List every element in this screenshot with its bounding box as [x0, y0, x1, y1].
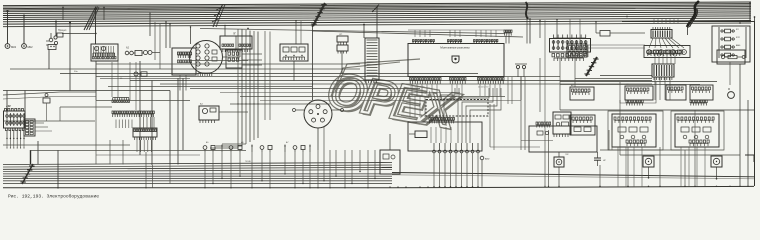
wire VR2 drops to rail — [680, 147, 682, 186]
wire corner x160 — [159, 24, 161, 69]
wire horiz y90 left — [3, 90, 170, 92]
wire horiz y110 right — [560, 109, 754, 111]
RB1 lower rects — [552, 54, 587, 57]
watermark frame stroke — [335, 59, 420, 92]
small box left of K5 — [600, 31, 610, 37]
RC1 inner rects — [654, 50, 659, 54]
wire vert x152 — [151, 81, 153, 166]
A3 inner lower contacts — [178, 60, 192, 63]
wire left horiz y150 — [30, 150, 246, 152]
frame inner vert x750 — [749, 3, 751, 22]
wire vert x7 lower — [6, 91, 8, 114]
regulator block VR1 frame — [612, 114, 656, 147]
capacitor C1 — [594, 157, 601, 159]
wire left horiz y86 — [108, 86, 312, 88]
junction box A1 with contacts — [91, 44, 118, 61]
wire drop to lamp MK2-2 — [23, 16, 25, 44]
fuse block F1 top terminal row — [5, 109, 24, 111]
sender B2 box — [554, 157, 564, 167]
wire left vert x136 — [135, 62, 137, 110]
relay bank RB1 right extension — [567, 44, 587, 57]
A1 inner contact comb — [93, 53, 115, 57]
wire right horiz y48 — [588, 47, 645, 49]
wire left horiz y145 — [3, 144, 130, 146]
VR1 pins down — [627, 144, 645, 147]
wire K5 top feeds — [653, 18, 655, 24]
D2 right lead — [332, 109, 340, 111]
wire right loop RG2 — [620, 82, 656, 103]
H1 connector row — [429, 118, 455, 121]
wire vert x755 drop from bus — [754, 17, 756, 22]
fuse F1 lower row — [6, 128, 25, 131]
wire vert x140 — [139, 61, 141, 155]
cable bundle diagonal x585 — [586, 57, 597, 76]
wire x545 drops — [544, 130, 546, 186]
wire drops mid x330-370 — [317, 150, 375, 189]
wire left vert x118 — [117, 55, 119, 97]
connector row mid x536 — [536, 122, 551, 125]
wire drop x225 — [224, 26, 226, 37]
relay box K4 — [199, 106, 219, 120]
wire horiz mid y150 right — [600, 149, 680, 151]
wire vert x540 — [539, 58, 541, 112]
relay group RG3 — [666, 85, 686, 100]
wire horiz y69 — [10, 68, 360, 70]
relay K0 small — [57, 33, 63, 37]
wire vert x660b — [659, 147, 661, 186]
connector cluster X6 dense — [652, 64, 674, 77]
wire horiz right y84 — [560, 84, 700, 86]
wire distributor frame link — [222, 56, 240, 58]
connector X2 pins down — [113, 114, 154, 117]
junction box U1 (Montazhnye razyomy) frame — [408, 44, 504, 77]
VR2 component row — [681, 127, 689, 132]
wire vert x96 mid — [95, 61, 97, 100]
svg-text:МК2: МК2 — [28, 45, 34, 49]
wire drop x123 low — [122, 140, 124, 165]
wire vert x748 — [747, 100, 749, 186]
wire dots on ground rail right — [599, 186, 600, 187]
small switch left — [43, 98, 50, 103]
wire vert x545b — [544, 20, 546, 130]
wire A1 dense internals — [93, 46, 95, 56]
K4 pins — [200, 120, 215, 123]
staircase wires from box pins — [458, 88, 489, 143]
contact lamp A1-1 — [95, 47, 99, 51]
wire drop x146 — [145, 152, 147, 188]
distributor D2 body — [304, 100, 332, 128]
wire harness crossing dots — [237, 103, 238, 104]
wire right horiz y140 — [521, 140, 553, 142]
motor unit ME1 — [643, 156, 654, 167]
wire K3 drop — [293, 61, 295, 81]
U1 top pin group 2 — [448, 41, 461, 44]
B1 terminals — [222, 44, 234, 46]
lamp MK2-1 — [5, 44, 10, 49]
wire X2 to X3 drops — [115, 120, 117, 129]
E1 inner — [383, 154, 389, 159]
wire left mid horiz y100 — [96, 100, 190, 102]
relay bank RB1 frame — [550, 39, 591, 53]
wire headlamp drops left — [409, 96, 411, 117]
relay group RG1 — [570, 87, 594, 100]
fuse F1 elements — [6, 113, 8, 126]
wire drop x170b — [169, 165, 171, 184]
H1 small box left — [415, 131, 427, 138]
wire vert x70 — [69, 23, 71, 91]
relay group RG2 — [625, 86, 653, 100]
wire mid y100b — [260, 100, 521, 102]
svg-text:Рис. 192,193. Электрооборудова: Рис. 192,193. Электрооборудование — [8, 193, 99, 199]
svg-text:ПОЧВ: ПОЧВ — [245, 161, 251, 163]
connector X3 row — [134, 129, 156, 132]
K3 contact dots — [285, 55, 286, 56]
big frame right section — [622, 22, 755, 187]
wire drop x312 — [312, 26, 314, 100]
wire box feed horiz y30 — [408, 29, 504, 31]
svg-text:АМ2: АМ2 — [485, 158, 490, 161]
cable crossing bus x214 — [213, 5, 223, 28]
wire E1 feed — [389, 134, 391, 150]
wire vert x178 — [177, 78, 179, 165]
X4 pin ladder — [367, 40, 378, 76]
wire vert x540b — [539, 21, 541, 39]
wire horiz y76 — [96, 76, 560, 78]
S1 knot contacts — [50, 46, 51, 47]
relay box K3 frame — [280, 44, 308, 61]
wire VR1 drops to rail — [617, 147, 619, 186]
K2 contacts — [26, 121, 29, 123]
svg-text:СП: СП — [339, 34, 343, 36]
connector X1 row — [112, 100, 130, 102]
wire horiz right y81 — [560, 81, 717, 83]
wire sp drop — [341, 51, 343, 74]
RB1 top pins — [554, 35, 586, 39]
svg-text:БП: БП — [8, 106, 12, 108]
fuse F1 lower contacts — [6, 131, 8, 139]
wire left vert x130 — [129, 62, 131, 100]
VR2 lower contacts — [689, 140, 709, 143]
wire drop x688 — [687, 27, 689, 35]
wire long return to right edge — [392, 173, 754, 177]
wire drop x96b — [95, 100, 97, 165]
lamp AM2 — [480, 156, 484, 160]
bracket right edge — [745, 155, 754, 162]
B1 drop wires — [223, 49, 250, 52]
equipment box around lamp row — [408, 122, 482, 151]
wire stub above cable — [30, 150, 32, 164]
wire vert x183 — [182, 78, 184, 150]
wire vert x560 — [559, 58, 561, 110]
wire X6 to relay groups — [654, 85, 656, 100]
wire horiz right y78 — [575, 78, 652, 80]
switch S1 group — [49, 38, 53, 42]
VR1 component row — [618, 127, 626, 132]
relay column KL2 — [721, 38, 723, 40]
wire mid vert x512 — [511, 77, 513, 104]
RR1 inner parts — [555, 115, 561, 119]
lamp MK2-2 — [22, 44, 27, 49]
wire mid y88 — [190, 88, 420, 90]
wire drop x95 — [95, 9, 97, 44]
switch SP1 — [337, 36, 348, 42]
K5 fan wires — [649, 38, 684, 48]
watermark logo OREH outline letters — [324, 64, 464, 141]
wire drop x190 — [190, 27, 192, 44]
box around relay column — [712, 26, 750, 62]
wire vert x580 — [579, 19, 581, 44]
wire left mid horiz y107 — [60, 106, 112, 108]
K2 out wires — [35, 122, 44, 124]
wire mid y64 — [96, 63, 360, 65]
K4 coil circle — [202, 108, 207, 113]
wire vert x620 — [619, 100, 621, 155]
wire headlamp side verts — [489, 104, 491, 147]
VR1 contact row — [614, 117, 651, 120]
wire vert x600 — [599, 165, 601, 186]
contact lamp A1-2 — [102, 47, 106, 51]
wire bundle curve crossing bus at x90 — [84, 7, 96, 31]
distributor D1 body — [190, 41, 223, 74]
wire second long return — [392, 175, 754, 179]
H1 bottom contact row — [433, 143, 480, 153]
side connector wires — [242, 53, 262, 55]
connector X5 small — [504, 30, 512, 32]
U1 bottom pin group 1 — [410, 78, 442, 81]
connector X4 tall body — [365, 38, 379, 80]
wire K3 feeds — [295, 21, 297, 44]
wire vert x695b — [694, 110, 696, 150]
RB1 fuse elements — [552, 40, 587, 50]
wire right horiz y37 — [610, 32, 645, 34]
wire vert x628 — [627, 147, 629, 186]
relay column KL1 — [721, 30, 723, 32]
wire mid y92 — [220, 92, 460, 94]
wire horiz y120 left — [3, 120, 95, 122]
wire corner x155 — [154, 22, 156, 60]
wire RB1 drops — [554, 58, 584, 61]
wire drop x63 — [62, 7, 64, 20]
wire vert x525 — [524, 77, 526, 150]
wire harness extra drops — [264, 31, 266, 120]
wire corner x150 — [149, 13, 151, 36]
small gauge pair mid-left — [134, 72, 138, 76]
wire bus bottom return wires — [3, 163, 392, 188]
wire drop x38 — [37, 141, 39, 165]
wire drop x377 top — [376, 7, 378, 38]
D2 center dot — [317, 113, 319, 115]
wire bus top horizontal supply wires — [3, 2, 751, 27]
gauge chain box — [135, 51, 142, 56]
A1 lower terminal row — [93, 57, 117, 59]
cable bundle diagonal bottom-left — [22, 164, 33, 184]
wire vert x527 — [526, 20, 528, 44]
gauge chain G1 — [125, 51, 129, 55]
equipment box E1 tall — [380, 150, 400, 174]
distributor side connector — [226, 50, 242, 68]
B1 inner divider — [235, 36, 237, 49]
wire vert x740 — [739, 64, 741, 186]
wire box top feeds — [414, 30, 416, 37]
connector X2 row — [112, 111, 154, 114]
relay block K2 beside fuse block — [24, 119, 35, 136]
wire B2 drop — [558, 167, 560, 186]
wire K4 link — [219, 111, 248, 113]
svg-text:М: М — [728, 88, 730, 91]
connector X1 pins — [113, 98, 129, 100]
wire vert x655-670 drops — [655, 77, 670, 85]
wire vert x25 lower — [24, 91, 26, 114]
connector X3 pins — [135, 137, 156, 140]
relay column AM6 — [721, 46, 723, 48]
wire vert x521b — [520, 77, 522, 150]
wire horiz y155 right — [620, 154, 740, 156]
wire drop node at x56 — [55, 22, 57, 37]
X6 pigtails — [654, 77, 672, 80]
X6 upper contacts — [647, 51, 681, 54]
wire left horiz y78 — [100, 77, 190, 79]
wire under box drops — [411, 84, 413, 96]
headlamp H1 dashed frame — [426, 100, 488, 117]
U1 bottom pin group 3 — [478, 78, 505, 81]
A3 feed wires — [165, 22, 167, 48]
gauge chain G2 — [144, 51, 148, 55]
U1 top pin group 1 — [413, 41, 433, 44]
RC1 coils — [647, 50, 652, 55]
wire vert x685 — [684, 150, 686, 186]
wire horiz right y75 — [600, 75, 652, 77]
distributor D1 inner rects — [212, 50, 217, 54]
resistor unit R1 box — [717, 50, 745, 64]
connector X3 block — [133, 128, 157, 137]
small parts below x536 — [537, 131, 543, 135]
wire bottom ground rail right half — [392, 186, 754, 187]
wire harness bends to left — [210, 144, 246, 148]
wire horiz y84 — [160, 83, 652, 85]
wire horiz y80 — [130, 80, 652, 82]
wire fuse outputs short stubs — [6, 139, 8, 148]
distributor D1 contact grid — [196, 44, 200, 48]
wire relay column bus — [718, 27, 720, 58]
wire right loop VR2 — [671, 111, 724, 150]
wire drop x530 — [529, 19, 531, 44]
wire mid vert x508 — [507, 77, 509, 104]
wire horiz y73 — [60, 73, 478, 75]
svg-text:Монтажные разъемы: Монтажные разъемы — [440, 46, 470, 50]
wire vert x557 — [556, 20, 558, 38]
svg-text:МК2: МК2 — [11, 45, 17, 49]
cable crossing ticks — [212, 7, 223, 22]
ignition coil box B1 — [220, 36, 252, 49]
contact pair CP1 — [516, 65, 519, 68]
bottom components row (switches and lamps) — [203, 145, 311, 189]
wire vert x730 — [729, 62, 731, 85]
fuse block F1 frame — [4, 111, 26, 128]
VR1 contact pins — [615, 121, 650, 123]
wire left vert x112b — [111, 62, 113, 97]
A3 output wires — [179, 75, 181, 91]
U1 bottom pin group 2 — [450, 78, 467, 81]
wire left vert x60 — [59, 107, 61, 121]
wire vert x49 — [48, 49, 50, 69]
cable bundle diagonal top-middle — [313, 3, 325, 26]
wire right horiz y45 — [588, 44, 645, 46]
wire drop to lamp MK2-1 — [7, 11, 9, 44]
distribution box A3 — [172, 48, 196, 75]
VR2 contact row — [677, 117, 714, 120]
wire vert x170 — [169, 91, 171, 165]
wire drop x521 — [520, 77, 522, 101]
relay column KL3 — [721, 54, 723, 56]
dots bottom rail mid — [389, 186, 390, 187]
wire drop x110 low — [109, 140, 111, 165]
motor M1 circle — [728, 92, 735, 99]
wire right vert x588 — [587, 45, 589, 57]
wire drop x364 — [363, 25, 365, 39]
wire vert x575 — [574, 58, 576, 87]
wire right loop VR1 — [608, 111, 663, 150]
A3 inner connector — [178, 52, 192, 55]
VR2 contact pins — [678, 121, 713, 123]
wire drop x609 low — [608, 130, 610, 150]
svg-text:10 11 12 13: 10 11 12 13 — [478, 87, 489, 89]
wire horiz y104 mid — [230, 103, 330, 105]
U1 top pin group 3 — [474, 41, 497, 44]
regulator block VR2 frame — [675, 114, 719, 147]
A3 inner pins — [178, 55, 191, 58]
regulator block VR0 small left — [570, 115, 595, 135]
R1 inner resistor — [728, 56, 737, 59]
wire vert x695 — [694, 150, 696, 186]
relay row RC1 frame — [644, 46, 690, 58]
regulator box RR1 (x554) — [553, 112, 571, 134]
H1 pins — [430, 120, 454, 123]
squiggle cable x527 — [526, 2, 529, 19]
wire X3 outputs down — [136, 140, 138, 152]
wire harness six vertical drops — [238, 29, 258, 148]
wire X2-X3 links — [139, 117, 141, 128]
squiggle small x374 — [372, 5, 379, 13]
equipment frame around sender cluster — [529, 126, 597, 152]
VR2 pins down — [690, 144, 708, 147]
gauge chain links — [133, 52, 135, 54]
wire left horiz y155 — [96, 154, 200, 156]
lamp row feed verticals — [430, 127, 432, 143]
X4 side pins — [366, 80, 376, 83]
cable bundle thick top-right — [687, 1, 699, 27]
connector X8 — [690, 100, 707, 103]
svg-text:Прицеп: Прицеп — [58, 29, 67, 32]
K3 pins — [283, 57, 305, 60]
motor unit ME2 — [711, 156, 722, 167]
RR1 pins — [554, 134, 568, 137]
distributor D1 leads — [198, 73, 212, 76]
K3 relays inner — [283, 47, 289, 52]
VR1 lower contacts — [626, 140, 646, 143]
D2 cap contacts — [316, 105, 320, 109]
wire D2 down — [317, 128, 319, 150]
wire drop x152b — [152, 165, 154, 188]
K5 top stubs — [653, 27, 670, 30]
wire vert x570b — [569, 19, 571, 44]
wire drop x58 tall — [57, 150, 59, 188]
relay group RG4 — [690, 85, 713, 100]
wire H1 drops to rail — [433, 153, 478, 188]
connector X7 — [626, 100, 643, 103]
D2 left lead — [296, 109, 304, 111]
connector K5 dense block — [651, 30, 672, 39]
wire bus top thin strands — [3, 6, 523, 37]
